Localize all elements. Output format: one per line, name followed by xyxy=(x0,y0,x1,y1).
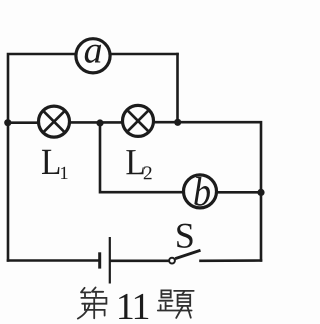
label S xyxy=(177,224,192,248)
node junction dot right of L2 (ammeter branch) xyxy=(174,119,181,126)
label L1 xyxy=(42,150,59,174)
battery cell: short negative plate xyxy=(98,252,101,268)
node junction dot right rail / meter b xyxy=(257,189,264,196)
switch S pivot circle xyxy=(169,258,175,264)
lamp L2 xyxy=(123,105,154,136)
node junction dot left (mid rail / left rail) xyxy=(4,119,11,126)
label L2 xyxy=(126,150,143,174)
ammeter U_a (meter a) xyxy=(76,39,110,73)
caption character 第 xyxy=(78,287,107,318)
voltmeter U_b (meter b) xyxy=(184,175,217,208)
lamp L1 xyxy=(39,106,70,137)
node junction dot between L1 and L2 (b-branch tap) xyxy=(96,119,103,126)
wire top-left loop: left rail + top wire to ammeter branch corner xyxy=(8,54,178,261)
wire middle rail right segment + right rail down xyxy=(155,122,262,260)
wire battery to switch pivot xyxy=(111,259,170,262)
wire meter b to right rail xyxy=(219,191,262,194)
wire switch contact to bottom-right corner xyxy=(201,259,262,262)
caption digits 11 xyxy=(119,294,132,319)
battery cell: long positive plate xyxy=(109,237,111,284)
wire middle rail between L1 and L2 xyxy=(70,121,122,124)
wire middle rail left segment xyxy=(8,121,38,124)
wire b-branch: vertical from mid rail + horizontal to meter b xyxy=(100,123,182,192)
wire ammeter branch vertical drop xyxy=(176,54,179,122)
wire bottom left to battery xyxy=(8,259,99,262)
caption character 题 xyxy=(158,290,194,318)
switch S lever arm xyxy=(175,250,200,258)
